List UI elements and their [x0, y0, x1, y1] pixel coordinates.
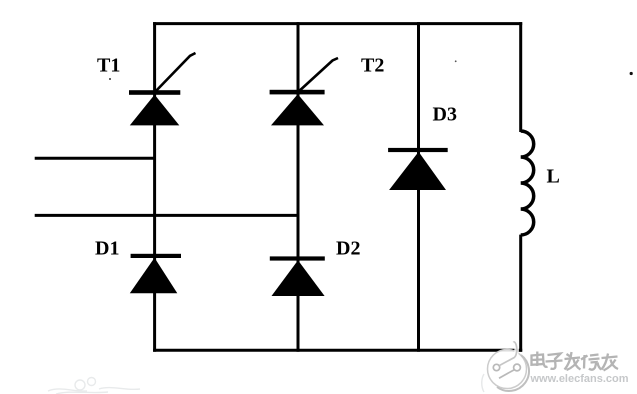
thyristor T2: [270, 58, 338, 125]
wire D3 branch: [417, 22, 420, 352]
faint remnant arc left of logo: [482, 374, 484, 392]
svg-text:L: L: [547, 166, 560, 188]
diode D3: [388, 148, 448, 190]
glyph 子: [546, 354, 563, 369]
svg-text:D3: D3: [433, 104, 457, 126]
inductor L: [521, 131, 534, 235]
wire AC input upper: [35, 157, 156, 160]
wire top bus: [153, 22, 522, 25]
speck dot below T1 label: [109, 78, 111, 80]
speck dot top right: [630, 72, 633, 75]
watermark (decorative): [488, 342, 629, 391]
wire AC input lower: [35, 214, 300, 217]
diode D1: [130, 254, 181, 293]
wire bottom bus: [153, 349, 522, 352]
speck dot near T2: [455, 60, 457, 62]
wire right branch upper: [519, 22, 522, 132]
glyph 友: [602, 354, 619, 371]
glyph 烧: [581, 355, 602, 370]
svg-text:T1: T1: [97, 55, 120, 77]
svg-text:T2: T2: [361, 55, 384, 77]
wire left branch: [153, 22, 156, 352]
thyristor T1: [129, 53, 196, 125]
svg-text:D2: D2: [336, 238, 360, 260]
diode D2: [270, 256, 325, 296]
wire right branch lower: [519, 235, 522, 352]
svg-text:D1: D1: [95, 238, 119, 260]
faint bottom-left watermark remnants: [48, 378, 140, 394]
glyph 发: [565, 352, 581, 370]
svg-text:www.elecfans.com: www.elecfans.com: [530, 373, 629, 385]
wire middle branch: [297, 22, 300, 352]
glyph 电: [532, 352, 548, 367]
